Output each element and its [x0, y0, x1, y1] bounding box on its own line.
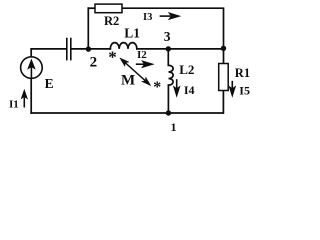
- svg-text:L2: L2: [179, 62, 194, 77]
- svg-text:R2: R2: [104, 14, 119, 28]
- svg-text:I3: I3: [143, 12, 152, 23]
- svg-text:I1: I1: [9, 99, 19, 111]
- svg-text:1: 1: [171, 120, 177, 134]
- svg-text:R1: R1: [235, 66, 250, 80]
- svg-text:I4: I4: [184, 83, 195, 97]
- svg-text:M: M: [121, 73, 135, 89]
- svg-text:I2: I2: [137, 49, 147, 61]
- svg-text:*: *: [108, 47, 117, 66]
- svg-text:*: *: [153, 79, 161, 96]
- svg-text:I5: I5: [239, 84, 250, 98]
- svg-text:3: 3: [164, 29, 171, 44]
- svg-text:2: 2: [90, 55, 98, 71]
- svg-text:E: E: [45, 76, 54, 91]
- svg-text:L1: L1: [124, 25, 140, 40]
